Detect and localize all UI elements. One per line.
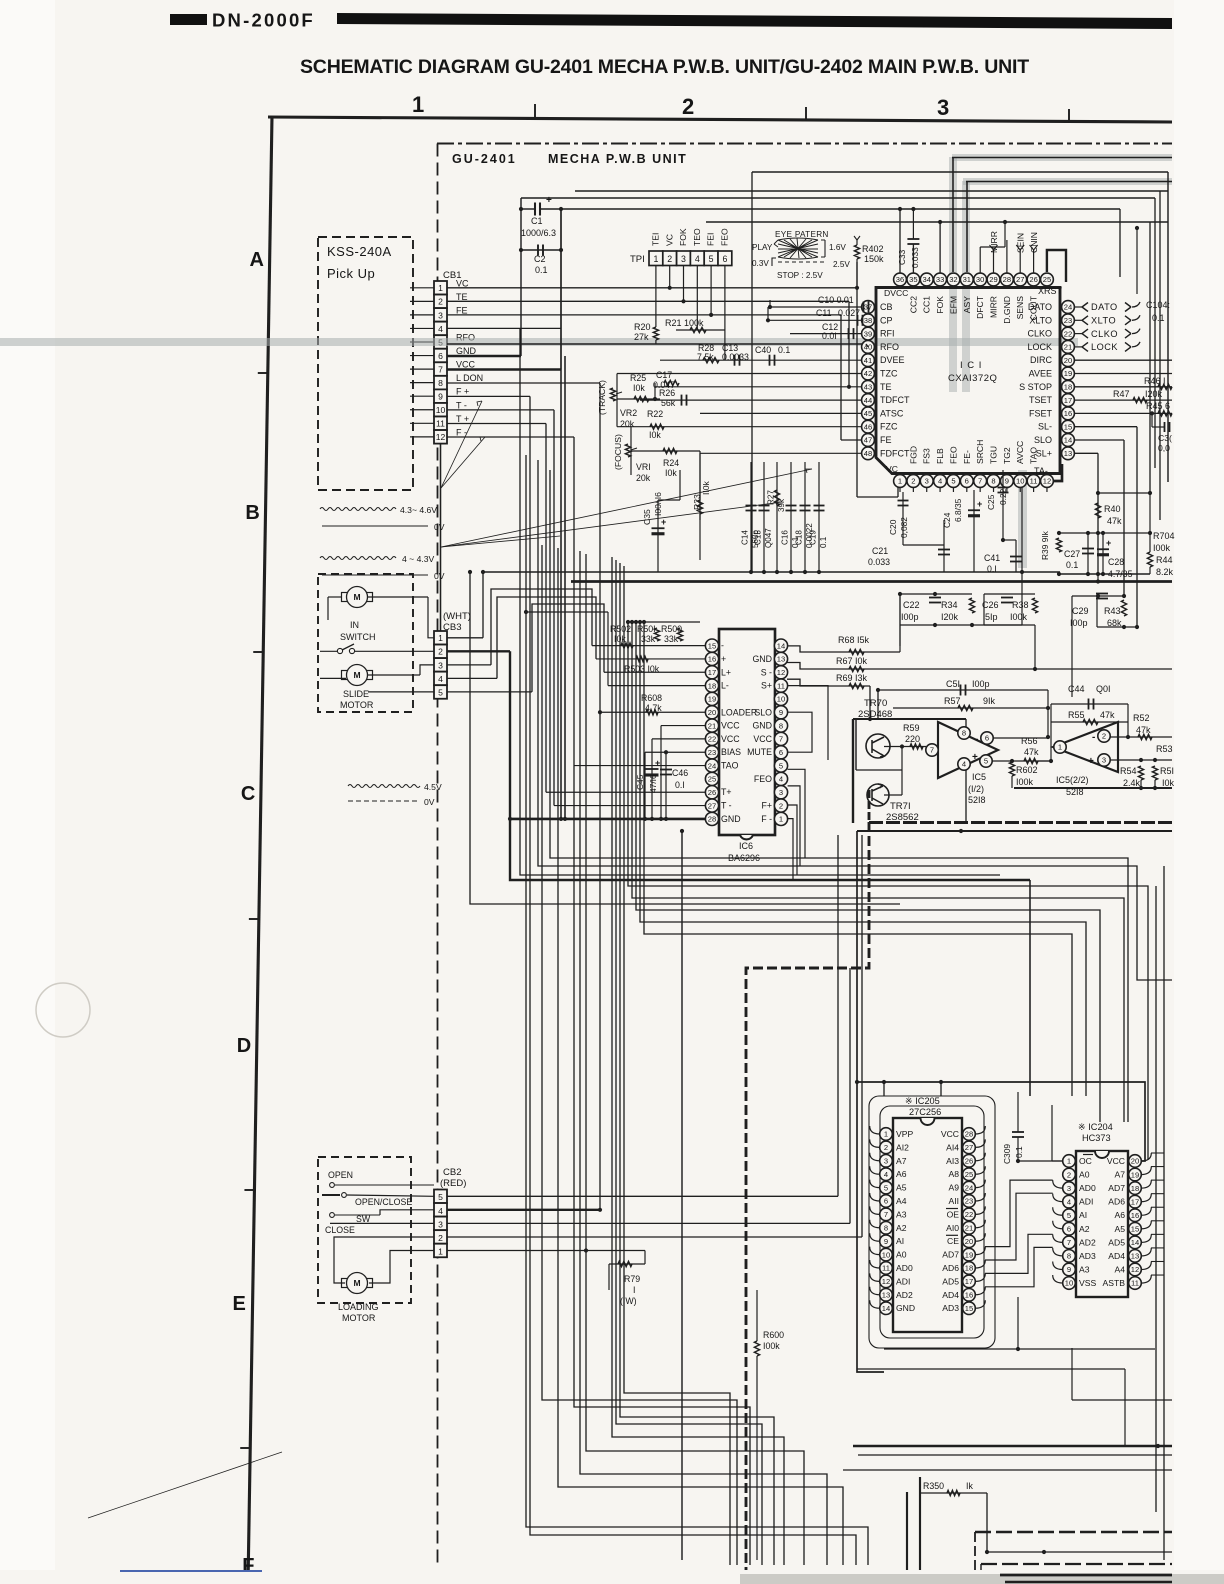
svg-text:48: 48 bbox=[864, 449, 872, 458]
svg-text:A: A bbox=[250, 249, 264, 271]
svg-text:+: + bbox=[1088, 756, 1094, 767]
svg-text:A0: A0 bbox=[1079, 1170, 1090, 1180]
svg-text:I00k: I00k bbox=[763, 1341, 780, 1351]
svg-text:R53: R53 bbox=[1156, 744, 1173, 754]
svg-text:ADI: ADI bbox=[896, 1276, 910, 1286]
svg-text:20: 20 bbox=[965, 1237, 973, 1246]
svg-text:0.1: 0.1 bbox=[1152, 313, 1165, 323]
svg-text:23: 23 bbox=[965, 1197, 973, 1206]
svg-text:AI2: AI2 bbox=[896, 1142, 909, 1152]
svg-text:A6: A6 bbox=[896, 1169, 907, 1179]
svg-text:1: 1 bbox=[898, 477, 902, 486]
svg-text:C20: C20 bbox=[888, 519, 898, 535]
svg-text:35: 35 bbox=[909, 275, 917, 284]
svg-text:TPI: TPI bbox=[630, 254, 645, 265]
svg-text:SLO: SLO bbox=[1034, 435, 1052, 445]
svg-text:26: 26 bbox=[708, 788, 716, 797]
svg-text:4: 4 bbox=[884, 1170, 888, 1179]
svg-text:0.1: 0.1 bbox=[1066, 560, 1078, 570]
svg-text:18: 18 bbox=[1131, 1184, 1139, 1193]
svg-text:R55: R55 bbox=[1068, 710, 1085, 720]
svg-text:I00p: I00p bbox=[1070, 618, 1088, 628]
svg-text:C44: C44 bbox=[1068, 684, 1085, 694]
svg-text:22: 22 bbox=[965, 1210, 973, 1219]
svg-text:13: 13 bbox=[1064, 449, 1072, 458]
svg-text:AD2: AD2 bbox=[1079, 1237, 1096, 1247]
svg-text:12: 12 bbox=[882, 1277, 890, 1286]
svg-text:T -: T - bbox=[456, 400, 467, 410]
svg-text:SL-: SL- bbox=[1038, 422, 1052, 432]
svg-text:27: 27 bbox=[965, 1143, 973, 1152]
svg-text:17: 17 bbox=[708, 668, 716, 677]
svg-text:L DON: L DON bbox=[456, 373, 483, 383]
svg-text:4: 4 bbox=[779, 775, 783, 784]
svg-text:6: 6 bbox=[985, 734, 989, 743]
svg-text:4: 4 bbox=[1067, 1197, 1071, 1206]
svg-text:TEI: TEI bbox=[651, 233, 661, 246]
svg-text:2.4k: 2.4k bbox=[1123, 778, 1141, 788]
svg-text:34: 34 bbox=[922, 275, 930, 284]
svg-text:20: 20 bbox=[1064, 356, 1072, 365]
svg-text:0V: 0V bbox=[434, 571, 445, 581]
svg-text:8: 8 bbox=[884, 1224, 888, 1233]
svg-text:9: 9 bbox=[884, 1237, 888, 1246]
svg-text:0.0I: 0.0I bbox=[822, 331, 837, 341]
svg-text:11: 11 bbox=[777, 681, 785, 690]
svg-text:10: 10 bbox=[1065, 1279, 1073, 1288]
svg-text:11: 11 bbox=[882, 1264, 890, 1273]
svg-text:23: 23 bbox=[708, 748, 716, 757]
svg-text:FE: FE bbox=[880, 435, 892, 445]
svg-text:C1: C1 bbox=[531, 216, 543, 226]
svg-text:47k: 47k bbox=[1100, 710, 1115, 720]
svg-text:(FOCUS): (FOCUS) bbox=[613, 434, 623, 470]
svg-text:17: 17 bbox=[1064, 396, 1072, 405]
svg-text:+: + bbox=[972, 752, 978, 763]
svg-text:10: 10 bbox=[1016, 477, 1024, 486]
svg-text:220: 220 bbox=[905, 734, 920, 744]
svg-text:AD4: AD4 bbox=[942, 1290, 959, 1300]
svg-text:TE: TE bbox=[456, 292, 468, 302]
svg-text:C: C bbox=[241, 783, 255, 805]
svg-text:AD2: AD2 bbox=[896, 1290, 913, 1300]
svg-text:19: 19 bbox=[1131, 1170, 1139, 1179]
svg-text:MECHA P.W.B UNIT: MECHA P.W.B UNIT bbox=[548, 152, 687, 166]
svg-text:12: 12 bbox=[1043, 477, 1051, 486]
svg-text:4.7/35: 4.7/35 bbox=[1108, 569, 1133, 579]
svg-text:-: - bbox=[1092, 732, 1095, 743]
svg-text:20k: 20k bbox=[620, 419, 635, 429]
svg-text:20: 20 bbox=[708, 708, 716, 717]
svg-text:AD4: AD4 bbox=[1108, 1251, 1125, 1261]
svg-text:+: + bbox=[661, 517, 666, 527]
svg-text:4: 4 bbox=[438, 324, 443, 334]
svg-text:5: 5 bbox=[438, 687, 443, 697]
svg-text:R24: R24 bbox=[663, 458, 679, 468]
svg-text:C41: C41 bbox=[984, 553, 1000, 563]
svg-text:R22: R22 bbox=[647, 409, 663, 419]
svg-text:TEO: TEO bbox=[692, 228, 702, 246]
svg-text:23: 23 bbox=[1064, 316, 1072, 325]
svg-text:EFM: EFM bbox=[948, 296, 958, 314]
svg-text:+: + bbox=[977, 499, 982, 509]
svg-text:3: 3 bbox=[438, 310, 443, 320]
svg-text:4: 4 bbox=[695, 254, 700, 264]
svg-text:4: 4 bbox=[938, 477, 942, 486]
svg-text:R44: R44 bbox=[1156, 555, 1173, 565]
svg-text:4: 4 bbox=[438, 1206, 443, 1216]
svg-text:1: 1 bbox=[1058, 743, 1062, 752]
svg-text:21: 21 bbox=[1064, 343, 1072, 352]
svg-text:0.I: 0.I bbox=[987, 564, 997, 574]
svg-text:22: 22 bbox=[708, 735, 716, 744]
svg-text:HC373: HC373 bbox=[1082, 1133, 1111, 1143]
svg-text:A9: A9 bbox=[948, 1183, 959, 1193]
svg-text:C2: C2 bbox=[534, 254, 546, 264]
svg-text:6.8/35: 6.8/35 bbox=[953, 498, 963, 522]
svg-text:MIRR: MIRR bbox=[989, 296, 999, 318]
svg-text:A7: A7 bbox=[896, 1156, 907, 1166]
svg-text:I0k: I0k bbox=[665, 468, 677, 478]
svg-text:C15: C15 bbox=[754, 530, 763, 545]
svg-text:8: 8 bbox=[991, 477, 995, 486]
svg-text:5: 5 bbox=[984, 757, 988, 766]
svg-text:R79: R79 bbox=[624, 1274, 640, 1284]
svg-text:13: 13 bbox=[777, 655, 785, 664]
svg-text:(TRACK): (TRACK) bbox=[597, 380, 607, 415]
svg-text:R704: R704 bbox=[1153, 531, 1175, 541]
svg-text:25: 25 bbox=[708, 775, 716, 784]
svg-text:1000/6.3: 1000/6.3 bbox=[521, 228, 556, 238]
svg-text:4.3~ 4.6V: 4.3~ 4.6V bbox=[400, 505, 437, 515]
svg-text:GND: GND bbox=[896, 1303, 915, 1313]
svg-text:5: 5 bbox=[884, 1183, 888, 1192]
svg-text:4 ~ 4.3V: 4 ~ 4.3V bbox=[402, 554, 435, 564]
svg-text:I00k: I00k bbox=[1153, 543, 1171, 553]
svg-text:C11: C11 bbox=[816, 308, 832, 318]
svg-text:0.033: 0.033 bbox=[910, 247, 920, 268]
svg-text:14: 14 bbox=[1064, 436, 1072, 445]
svg-text:T +: T + bbox=[456, 414, 469, 424]
svg-text:2.5V: 2.5V bbox=[833, 260, 850, 269]
svg-text:6: 6 bbox=[884, 1197, 888, 1206]
svg-text:LOCK: LOCK bbox=[1091, 342, 1118, 352]
svg-text:XRST: XRST bbox=[1038, 286, 1063, 296]
svg-text:OC: OC bbox=[1079, 1156, 1092, 1166]
svg-text:5: 5 bbox=[779, 761, 783, 770]
svg-text:R46 I: R46 I bbox=[1144, 376, 1166, 386]
svg-text:6: 6 bbox=[438, 351, 443, 361]
svg-text:25: 25 bbox=[1043, 275, 1051, 284]
svg-text:IC5(2/2): IC5(2/2) bbox=[1056, 775, 1089, 785]
svg-text:B: B bbox=[245, 502, 259, 524]
svg-text:AVCC: AVCC bbox=[1015, 441, 1025, 464]
svg-text:6: 6 bbox=[965, 477, 969, 486]
svg-text:-: - bbox=[721, 641, 724, 651]
svg-text:41: 41 bbox=[864, 356, 872, 365]
svg-text:LOADER: LOADER bbox=[721, 707, 757, 717]
svg-text:L-: L- bbox=[721, 681, 729, 691]
svg-text:C19: C19 bbox=[809, 530, 818, 545]
svg-text:DIRC: DIRC bbox=[1030, 355, 1052, 365]
svg-text:A2: A2 bbox=[1079, 1224, 1090, 1234]
svg-text:AD6: AD6 bbox=[942, 1263, 959, 1273]
svg-text:A5: A5 bbox=[1114, 1224, 1125, 1234]
svg-text:S STOP: S STOP bbox=[1019, 382, 1052, 392]
svg-text:AII: AII bbox=[948, 1196, 959, 1206]
svg-text:C309: C309 bbox=[1002, 1144, 1012, 1164]
svg-text:21: 21 bbox=[965, 1224, 973, 1233]
svg-text:10: 10 bbox=[882, 1250, 890, 1259]
svg-text:19: 19 bbox=[1064, 369, 1072, 378]
svg-text:SENS: SENS bbox=[1015, 296, 1025, 320]
svg-text:CNIN: CNIN bbox=[1029, 232, 1039, 253]
svg-text:TGU: TGU bbox=[989, 446, 999, 464]
svg-text:IC6: IC6 bbox=[739, 841, 753, 851]
svg-text:E: E bbox=[232, 1293, 245, 1315]
svg-text:CC1: CC1 bbox=[922, 296, 932, 313]
svg-text:COUT: COUT bbox=[1029, 295, 1039, 320]
svg-text:0.027: 0.027 bbox=[838, 308, 860, 318]
svg-text:CE: CE bbox=[947, 1236, 959, 1246]
svg-text:18: 18 bbox=[708, 681, 716, 690]
svg-text:3: 3 bbox=[438, 1219, 443, 1229]
svg-text:1: 1 bbox=[438, 1246, 443, 1256]
svg-text:C5I: C5I bbox=[946, 679, 960, 689]
svg-text:11: 11 bbox=[436, 419, 445, 429]
svg-text:1: 1 bbox=[412, 92, 424, 117]
svg-text:ATSC: ATSC bbox=[880, 408, 904, 418]
svg-text:DFCT: DFCT bbox=[975, 295, 985, 319]
svg-text:R25: R25 bbox=[630, 373, 646, 383]
svg-text:C28: C28 bbox=[1108, 557, 1124, 567]
svg-text:VR2: VR2 bbox=[620, 408, 637, 418]
svg-text:5: 5 bbox=[709, 254, 714, 264]
svg-text:0,0: 0,0 bbox=[1158, 443, 1170, 453]
svg-text:AD7: AD7 bbox=[942, 1250, 959, 1260]
svg-text:31: 31 bbox=[963, 275, 971, 284]
svg-text:0.1: 0.1 bbox=[778, 345, 790, 355]
svg-text:0.1: 0.1 bbox=[819, 536, 828, 548]
svg-text:5: 5 bbox=[1067, 1211, 1071, 1220]
svg-text:28: 28 bbox=[965, 1130, 973, 1139]
svg-text:27k: 27k bbox=[634, 332, 649, 342]
svg-text:AVEE: AVEE bbox=[1029, 369, 1052, 379]
svg-text:3: 3 bbox=[937, 95, 949, 120]
svg-text:9Ik: 9Ik bbox=[983, 696, 996, 706]
svg-text:27C256: 27C256 bbox=[909, 1107, 941, 1117]
svg-text:4.7k: 4.7k bbox=[645, 703, 662, 713]
svg-text:L+: L+ bbox=[721, 667, 731, 677]
svg-text:52I8: 52I8 bbox=[968, 795, 986, 805]
svg-text:14: 14 bbox=[777, 641, 785, 650]
svg-text:VRI: VRI bbox=[636, 462, 651, 472]
svg-text:MUTE: MUTE bbox=[747, 747, 772, 757]
svg-text:SLIDE: SLIDE bbox=[343, 689, 369, 699]
svg-text:13: 13 bbox=[882, 1291, 890, 1300]
svg-text:16: 16 bbox=[708, 655, 716, 664]
svg-text:OPEN/CLOSE: OPEN/CLOSE bbox=[355, 1197, 412, 1207]
svg-text:R5I: R5I bbox=[1160, 766, 1174, 776]
svg-text:-: - bbox=[975, 734, 978, 745]
svg-text:VCC: VCC bbox=[456, 360, 476, 370]
svg-text:GU-2401: GU-2401 bbox=[452, 152, 517, 166]
svg-text:XLTO: XLTO bbox=[1091, 316, 1116, 326]
svg-text:ADI: ADI bbox=[1079, 1197, 1093, 1207]
svg-text:DN-2000F: DN-2000F bbox=[212, 10, 315, 31]
svg-text:C22: C22 bbox=[903, 600, 920, 610]
svg-text:C21: C21 bbox=[872, 546, 888, 556]
svg-text:3: 3 bbox=[1067, 1184, 1071, 1193]
svg-text:I00p: I00p bbox=[901, 612, 919, 622]
svg-text:A3: A3 bbox=[896, 1209, 907, 1219]
svg-text:7: 7 bbox=[1067, 1238, 1071, 1247]
svg-text:C3(: C3( bbox=[1158, 433, 1172, 443]
svg-text:3: 3 bbox=[681, 254, 686, 264]
svg-text:24: 24 bbox=[965, 1183, 973, 1192]
svg-text:AI3: AI3 bbox=[946, 1156, 959, 1166]
svg-text:5: 5 bbox=[438, 1192, 443, 1202]
svg-text:9: 9 bbox=[1005, 477, 1009, 486]
svg-text:MOTOR: MOTOR bbox=[342, 1313, 376, 1323]
svg-text:+: + bbox=[1106, 538, 1111, 548]
svg-text:6: 6 bbox=[779, 748, 783, 757]
svg-text:FZC: FZC bbox=[880, 422, 898, 432]
svg-text:F -: F - bbox=[761, 814, 772, 824]
svg-text:VPP: VPP bbox=[896, 1129, 913, 1139]
svg-text:KSS-240A: KSS-240A bbox=[327, 244, 392, 259]
svg-text:4.5V: 4.5V bbox=[424, 782, 442, 792]
svg-text:TR7I: TR7I bbox=[890, 801, 911, 812]
svg-text:0.1: 0.1 bbox=[1014, 1146, 1024, 1158]
svg-text:6: 6 bbox=[722, 254, 727, 264]
svg-text:3: 3 bbox=[779, 788, 783, 797]
svg-text:14: 14 bbox=[882, 1304, 890, 1313]
svg-text:BIAS: BIAS bbox=[721, 747, 741, 757]
svg-text:FEO: FEO bbox=[754, 774, 772, 784]
svg-text:1: 1 bbox=[884, 1130, 888, 1139]
svg-text:CLOSE: CLOSE bbox=[325, 1225, 355, 1235]
svg-text:C16: C16 bbox=[781, 530, 790, 545]
svg-text:25: 25 bbox=[965, 1170, 973, 1179]
svg-text:9: 9 bbox=[779, 708, 783, 717]
svg-text:I00k: I00k bbox=[1010, 612, 1028, 622]
svg-text:R43: R43 bbox=[1104, 606, 1121, 616]
svg-text:7.5k: 7.5k bbox=[697, 352, 714, 362]
svg-text:3: 3 bbox=[1102, 756, 1106, 765]
svg-text:A8: A8 bbox=[948, 1169, 959, 1179]
svg-text:Q047: Q047 bbox=[764, 528, 773, 548]
svg-text:FS3: FS3 bbox=[922, 448, 932, 464]
svg-text:T+: T+ bbox=[721, 787, 732, 797]
svg-text:C25: C25 bbox=[986, 494, 996, 510]
svg-text:A2: A2 bbox=[896, 1223, 907, 1233]
svg-text:F+: F+ bbox=[761, 801, 772, 811]
svg-text:※ IC205: ※ IC205 bbox=[905, 1096, 940, 1106]
svg-text:AD7: AD7 bbox=[1108, 1183, 1125, 1193]
svg-text:C10 0.01: C10 0.01 bbox=[818, 295, 854, 305]
svg-text:20k: 20k bbox=[636, 473, 651, 483]
svg-text:R69 I3k: R69 I3k bbox=[836, 673, 868, 683]
svg-text:I C I: I C I bbox=[960, 360, 982, 371]
svg-text:GND: GND bbox=[752, 654, 772, 664]
svg-text:SRCH: SRCH bbox=[975, 440, 985, 464]
svg-text:10: 10 bbox=[436, 405, 446, 415]
svg-text:3: 3 bbox=[438, 660, 443, 670]
svg-text:I: I bbox=[633, 1285, 635, 1295]
svg-text:R602: R602 bbox=[1016, 765, 1038, 775]
svg-text:(WHT): (WHT) bbox=[443, 611, 471, 622]
svg-text:36: 36 bbox=[896, 275, 904, 284]
svg-text:0.033: 0.033 bbox=[868, 557, 890, 567]
svg-text:MOTOR: MOTOR bbox=[340, 700, 374, 710]
svg-text:R68 I5k: R68 I5k bbox=[838, 635, 870, 645]
svg-text:FEI: FEI bbox=[706, 233, 716, 246]
svg-text:ASTB: ASTB bbox=[1103, 1278, 1126, 1288]
svg-text:C17: C17 bbox=[656, 370, 672, 380]
svg-text:R402: R402 bbox=[862, 244, 884, 254]
svg-text:OPEN: OPEN bbox=[328, 1170, 353, 1180]
svg-text:43: 43 bbox=[864, 383, 872, 392]
svg-text:R39 9Ik: R39 9Ik bbox=[1040, 530, 1050, 560]
svg-text:7: 7 bbox=[978, 477, 982, 486]
svg-text:20: 20 bbox=[1131, 1157, 1139, 1166]
svg-text:II0k: II0k bbox=[701, 480, 711, 495]
svg-text:3: 3 bbox=[925, 477, 929, 486]
svg-text:T -: T - bbox=[721, 801, 732, 811]
svg-text:RFO: RFO bbox=[880, 342, 899, 352]
svg-text:16: 16 bbox=[965, 1291, 973, 1300]
svg-text:1: 1 bbox=[779, 815, 783, 824]
svg-text:R20: R20 bbox=[634, 322, 651, 332]
svg-text:AD5: AD5 bbox=[942, 1276, 959, 1286]
svg-text:29: 29 bbox=[989, 275, 997, 284]
svg-text:VCC: VCC bbox=[753, 734, 772, 744]
svg-text:2: 2 bbox=[779, 801, 783, 810]
svg-text:TZC: TZC bbox=[880, 369, 898, 379]
svg-text:15: 15 bbox=[1131, 1225, 1139, 1234]
svg-text:19: 19 bbox=[965, 1250, 973, 1259]
svg-text:4: 4 bbox=[962, 760, 966, 769]
svg-text:DVCC: DVCC bbox=[884, 288, 908, 298]
svg-text:AD3: AD3 bbox=[1079, 1251, 1096, 1261]
svg-text:MIRR: MIRR bbox=[989, 231, 999, 253]
svg-text:2: 2 bbox=[438, 647, 443, 657]
svg-text:CLKO: CLKO bbox=[1091, 329, 1118, 339]
svg-text:SCHEMATIC DIAGRAM GU-2401 MEC: SCHEMATIC DIAGRAM GU-2401 MECHA P.W.B. U… bbox=[300, 56, 1029, 78]
svg-text:2: 2 bbox=[682, 94, 694, 119]
svg-text:A0: A0 bbox=[896, 1250, 907, 1260]
svg-text:11: 11 bbox=[1131, 1279, 1139, 1288]
svg-text:D.GND: D.GND bbox=[1002, 296, 1012, 324]
svg-text:IC5: IC5 bbox=[972, 772, 986, 782]
svg-text:TE: TE bbox=[880, 382, 892, 392]
svg-text:(IW): (IW) bbox=[620, 1296, 637, 1306]
svg-text:AI: AI bbox=[1079, 1210, 1087, 1220]
svg-text:3: 3 bbox=[884, 1157, 888, 1166]
svg-text:7: 7 bbox=[779, 735, 783, 744]
svg-text:VC: VC bbox=[664, 234, 674, 246]
svg-text:VC: VC bbox=[456, 278, 469, 288]
svg-text:C40: C40 bbox=[755, 345, 771, 355]
svg-text:A4: A4 bbox=[896, 1196, 907, 1206]
svg-text:19: 19 bbox=[708, 695, 716, 704]
svg-text:0.047: 0.047 bbox=[653, 380, 675, 390]
svg-text:1: 1 bbox=[1067, 1157, 1071, 1166]
svg-text:47k: 47k bbox=[1136, 725, 1151, 735]
svg-text:C14: C14 bbox=[741, 530, 750, 545]
svg-text:1: 1 bbox=[653, 254, 658, 264]
